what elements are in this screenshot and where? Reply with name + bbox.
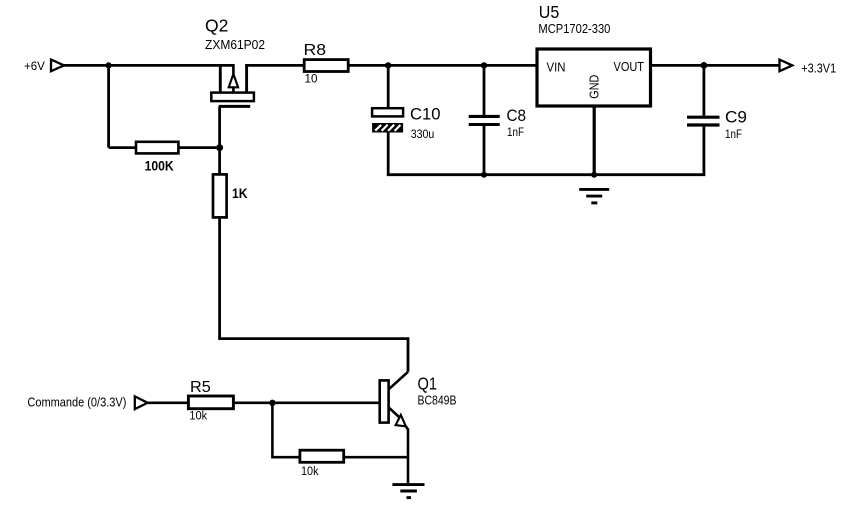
svg-text:BC849B: BC849B xyxy=(418,394,457,408)
svg-text:+3.3V1: +3.3V1 xyxy=(801,62,836,76)
wire top rail left xyxy=(64,64,234,67)
node C8 bottom junction xyxy=(481,172,487,178)
node VOUT junction xyxy=(701,62,708,69)
node B junction xyxy=(216,144,223,151)
svg-text:10k: 10k xyxy=(189,408,207,422)
wire Commande to R5 xyxy=(148,401,189,404)
wire C8 top xyxy=(483,65,486,115)
resistor R5 xyxy=(188,379,233,423)
ground Q1 xyxy=(392,485,424,498)
wire 10k to emitter xyxy=(344,456,408,459)
wire 100K to node B xyxy=(178,146,219,149)
svg-text:C9: C9 xyxy=(725,108,747,126)
wire C8 bottom xyxy=(483,126,486,175)
input terminal +6V xyxy=(51,60,64,72)
svg-text:R5: R5 xyxy=(190,379,211,396)
wire to 100K xyxy=(109,146,136,149)
node C10 top junction xyxy=(385,62,391,68)
wire U5 VOUT to output xyxy=(651,64,780,67)
svg-text:Q1: Q1 xyxy=(418,374,438,394)
node GND rail junction xyxy=(591,172,597,178)
wire R8 to U5 VIN xyxy=(348,64,537,67)
wire A down xyxy=(107,65,110,147)
transistor Q2 xyxy=(211,64,254,106)
node base junction xyxy=(269,400,275,406)
node A junction xyxy=(106,62,112,68)
svg-text:VOUT: VOUT xyxy=(614,60,645,74)
transistor Q1 xyxy=(380,372,408,430)
svg-text:1nF: 1nF xyxy=(725,127,742,141)
svg-text:100K: 100K xyxy=(145,158,174,174)
svg-text:ZXM61P02: ZXM61P02 xyxy=(205,38,265,52)
svg-text:U5: U5 xyxy=(539,2,560,22)
wire C9 top xyxy=(703,65,706,115)
svg-text:R8: R8 xyxy=(304,42,327,59)
op-amp U5 box xyxy=(537,49,651,106)
resistor R8 xyxy=(304,42,349,86)
wire node B to 1K xyxy=(218,148,221,175)
node C8 top junction xyxy=(481,62,487,68)
svg-text:Commande (0/3.3V): Commande (0/3.3V) xyxy=(27,396,126,410)
wire bottom rail xyxy=(387,173,706,176)
svg-text:MCP1702-330: MCP1702-330 xyxy=(538,22,610,36)
ground U5 xyxy=(579,189,609,203)
svg-text:1nF: 1nF xyxy=(507,125,524,139)
resistor 1K xyxy=(213,174,248,217)
wire Q2 gate down xyxy=(218,106,221,147)
resistor 10k xyxy=(300,450,344,478)
svg-text:GND: GND xyxy=(588,75,602,99)
capacitor C9 xyxy=(687,108,747,141)
svg-text:VIN: VIN xyxy=(547,60,566,74)
input terminal Commande xyxy=(135,396,148,409)
wire R5 to Q1 base xyxy=(233,401,379,404)
output terminal +3.3V1 xyxy=(780,60,793,72)
capacitor C8 xyxy=(469,107,526,139)
svg-text:C10: C10 xyxy=(410,106,441,124)
svg-text:10: 10 xyxy=(305,73,319,86)
capacitor C10 xyxy=(372,106,440,141)
wire junction down xyxy=(272,403,300,457)
svg-text:330u: 330u xyxy=(411,127,435,141)
svg-text:1K: 1K xyxy=(232,185,248,201)
svg-text:10k: 10k xyxy=(301,464,319,478)
wire Q2 drain to R8 xyxy=(245,64,304,67)
wire C9 bottom xyxy=(703,127,706,175)
svg-text:+6V: +6V xyxy=(24,61,45,73)
resistor 100K xyxy=(136,142,178,174)
wire emitter down xyxy=(407,429,410,484)
wire 1K to Q1 collector xyxy=(220,217,408,371)
svg-text:C8: C8 xyxy=(507,107,527,125)
wire U5 GND down xyxy=(593,106,596,175)
wire C10 bottom xyxy=(387,133,390,175)
svg-text:Q2: Q2 xyxy=(205,16,228,36)
wire C10 top xyxy=(387,65,390,108)
